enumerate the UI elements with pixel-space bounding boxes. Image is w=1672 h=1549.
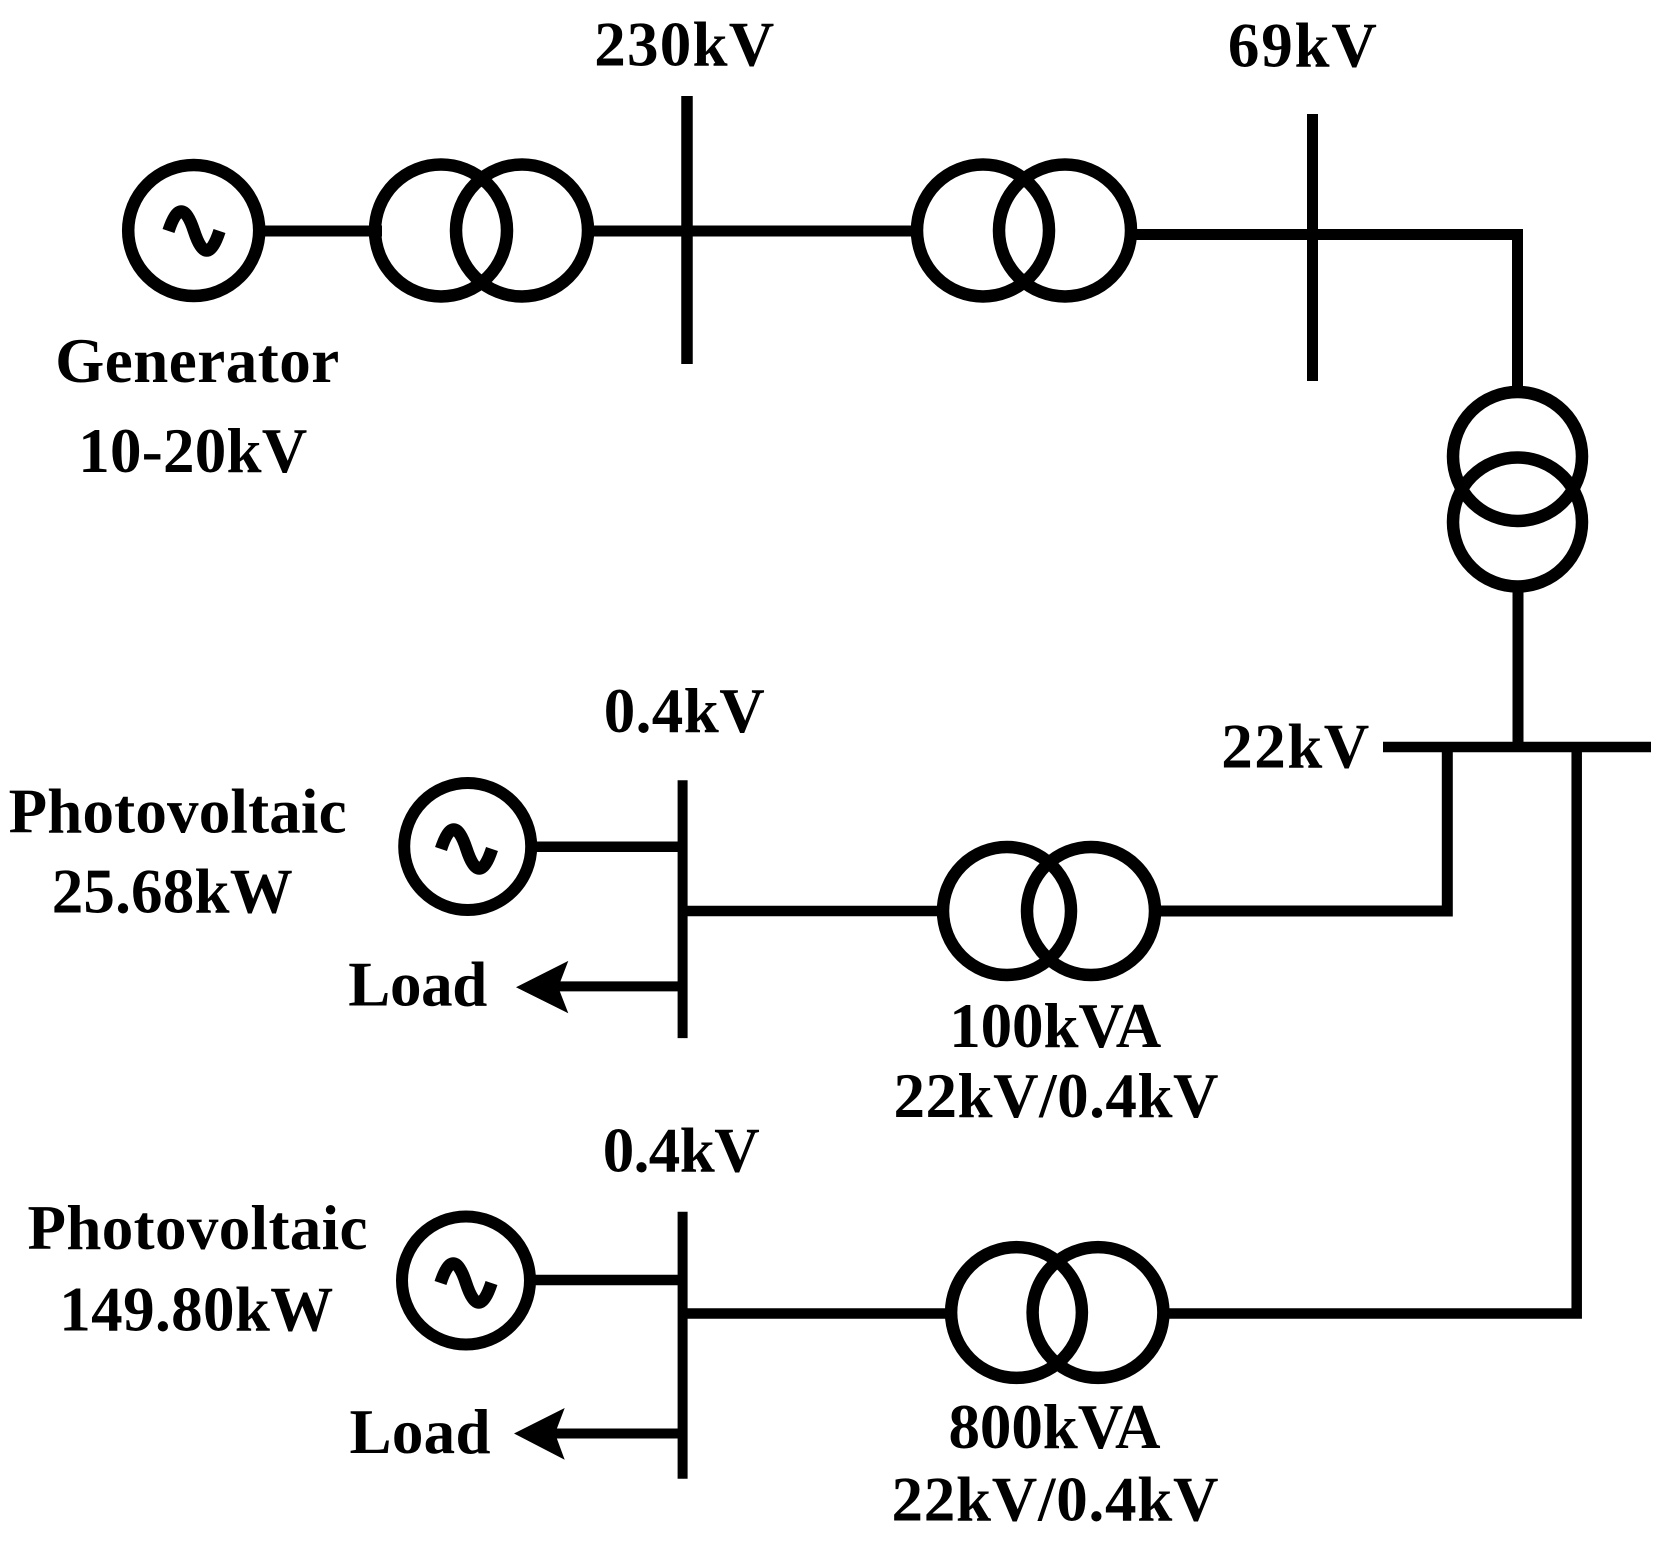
svg-text:22kV/0.4kV: 22kV/0.4kV <box>894 1061 1219 1131</box>
photovoltaic source PV2 circle <box>402 1217 530 1345</box>
svg-text:10-20kV: 10-20kV <box>78 416 307 486</box>
generator G circle <box>128 165 259 296</box>
load2 arrow shaft <box>554 1429 683 1439</box>
svg-text:0.4kV: 0.4kV <box>603 1116 760 1186</box>
svg-text:Generator: Generator <box>55 326 339 396</box>
generator sine symbol <box>169 212 220 251</box>
PV1 sine symbol <box>441 830 492 869</box>
PV2 sine symbol <box>441 1264 492 1303</box>
transformer T2 (230/69kV) <box>917 165 1131 297</box>
photovoltaic source PV1 circle <box>404 783 531 910</box>
load1 arrow shaft <box>556 981 683 991</box>
0.4kV bus branch2 <box>678 1212 688 1479</box>
transformer T5 (800kVA) <box>951 1247 1163 1378</box>
wire T1 to T2 through 230kV bus <box>585 226 920 237</box>
22kV bus <box>1383 742 1651 753</box>
transformer T3 (69/22kV, vertical) <box>1453 392 1582 587</box>
wire T2 to corner and down to T3 <box>1126 235 1518 396</box>
wire generator to transformer T1 <box>252 226 382 237</box>
svg-text:Load: Load <box>350 1397 491 1467</box>
svg-text:Photovoltaic: Photovoltaic <box>28 1193 368 1263</box>
wire 22kV bus down to branch1 (100kVA) <box>1155 747 1447 911</box>
svg-text:Photovoltaic: Photovoltaic <box>9 777 347 847</box>
svg-text:22kV: 22kV <box>1221 712 1369 782</box>
svg-text:22kV/0.4kV: 22kV/0.4kV <box>892 1465 1219 1535</box>
transformer T4 (100kVA) <box>943 847 1155 975</box>
transformer T1 (generator step-up) <box>375 165 588 297</box>
load1 arrowhead <box>516 961 568 1013</box>
230kV bus <box>681 96 693 364</box>
wire T3 bottom to 22kV bus <box>1513 585 1524 747</box>
svg-text:149.80kW: 149.80kW <box>59 1275 333 1345</box>
svg-text:230kV: 230kV <box>594 9 774 79</box>
svg-text:800kVA: 800kVA <box>949 1392 1162 1462</box>
wire 0.4kV bus to transformer T5 <box>683 1308 952 1319</box>
wire PV2 to 0.4kV bus <box>528 1275 683 1286</box>
load2 arrowhead <box>514 1408 565 1460</box>
svg-text:100kVA: 100kVA <box>949 991 1162 1061</box>
wire 22kV bus down to branch2 (800kVA) <box>1163 747 1577 1314</box>
svg-text:25.68kW: 25.68kW <box>52 856 293 926</box>
svg-text:Load: Load <box>348 950 487 1020</box>
wire 0.4kV bus to transformer T4 <box>683 906 945 917</box>
wire PV1 to 0.4kV bus <box>528 841 683 852</box>
69kV bus <box>1307 114 1318 381</box>
svg-text:69kV: 69kV <box>1228 10 1377 80</box>
0.4kV bus branch1 <box>678 780 688 1038</box>
svg-text:0.4kV: 0.4kV <box>604 676 765 746</box>
